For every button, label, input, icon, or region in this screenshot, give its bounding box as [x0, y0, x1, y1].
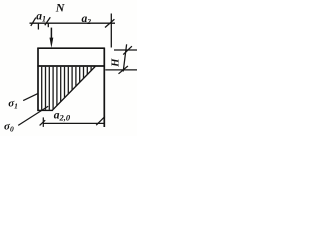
- svg-text:σ1: σ1: [8, 98, 18, 111]
- svg-text:H: H: [111, 58, 122, 68]
- H dimension upper extension line: [114, 49, 137, 51]
- svg-text:a2: a2: [82, 13, 92, 26]
- force N arrow shaft: [50, 28, 52, 40]
- tick slash left end (wall edge): [31, 18, 36, 26]
- wall right edge (extended down as extension line): [103, 48, 105, 127]
- dimension line top (a1 + a2): [30, 22, 116, 24]
- H tick slash lower: [119, 66, 128, 74]
- stress diagram bottom edge: [38, 109, 53, 111]
- wall left edge: [37, 48, 39, 112]
- extension stub wall edge below dim line: [37, 23, 39, 29]
- extension stub load axis below dim line: [47, 23, 49, 27]
- tick slash at load axis: [45, 17, 51, 25]
- svg-text:a1: a1: [36, 11, 46, 24]
- tick slash right end: [105, 19, 114, 27]
- svg-text:σ0: σ0: [4, 120, 14, 133]
- H dimension line (vertical): [123, 44, 126, 71]
- leader line sigma1: [23, 93, 38, 100]
- extension line right end of a2: [110, 14, 112, 48]
- hatching of stress diagram: [42, 67, 91, 110]
- force N arrowhead: [50, 38, 54, 48]
- leader line sigma0: [18, 106, 48, 125]
- a2,0 tick slash right: [96, 117, 105, 126]
- H tick slash upper: [123, 46, 132, 54]
- a2,0 dimension line bottom: [43, 122, 104, 124]
- wall top edge: [37, 47, 104, 49]
- level line at depth H: [37, 65, 104, 67]
- H dimension lower extension line: [105, 69, 137, 71]
- a2,0 tick slash left: [40, 120, 46, 125]
- svg-text:a2,0: a2,0: [54, 110, 71, 123]
- stress diagram diagonal edge: [52, 66, 95, 110]
- a2,0 left extension line: [42, 117, 44, 127]
- svg-text:N: N: [55, 0, 66, 14]
